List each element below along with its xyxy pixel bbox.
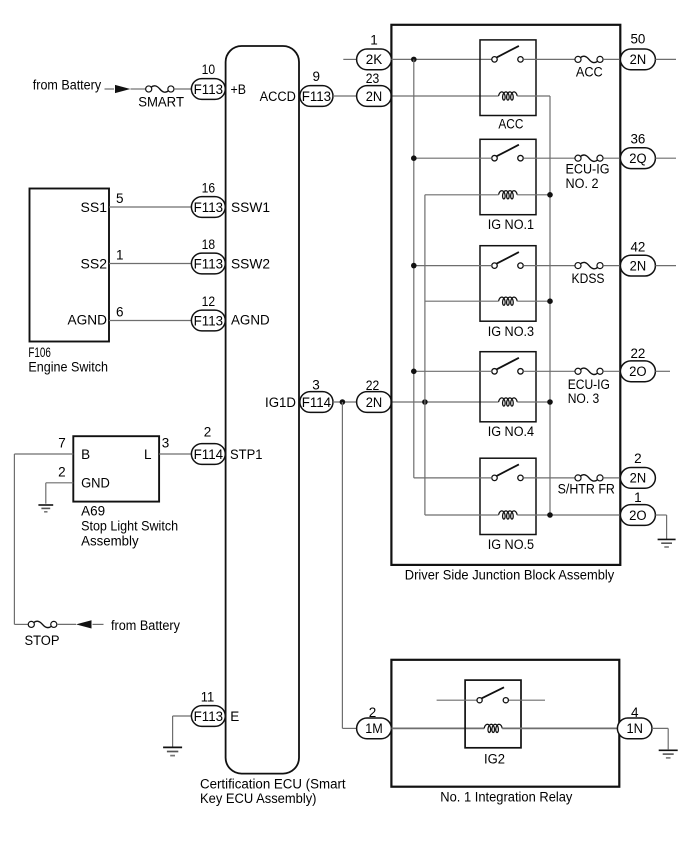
junction node switch-bus top [411,57,417,63]
wire fuse KDSS to connector 2N pin 42 [603,265,620,267]
junction node return bus at IG NO.4 coil [547,399,553,405]
svg-text:AGND: AGND [231,313,270,328]
wire relay IG NO.3 coil to return bus [517,300,550,302]
svg-text:KDSS: KDSS [572,271,605,286]
wire coil bus to relay IG NO.3 coil [425,300,499,302]
svg-text:STOP: STOP [25,633,60,648]
wire switch bus (vertical) [413,59,415,478]
junction node IG1D branch [340,399,346,405]
svg-text:IG1D: IG1D [265,395,296,410]
wire IG1D branch down to connector 1M pin 2 [341,402,343,728]
svg-text:2Q: 2Q [629,151,646,166]
ECU U1 Certification ECU (Smart Key ECU Assembly) body [226,46,299,774]
wire coil bus to relay IG NO.5 coil [425,514,499,516]
svg-text:F106: F106 [28,345,51,360]
wire relay IG NO.4 coil to return bus [517,401,550,403]
svg-text:2N: 2N [630,258,647,273]
wire stub after 2N pin 42 [655,265,676,267]
svg-text:F114: F114 [302,395,332,410]
svg-text:2: 2 [204,425,212,440]
svg-text:2N: 2N [366,89,383,104]
svg-text:B: B [81,447,90,462]
svg-text:F114: F114 [194,447,224,462]
svg-text:2K: 2K [366,52,383,67]
wire switch bus to relay IG NO.1 switch [414,157,492,159]
wire coil bus (vertical) IG NO.1 to IG NO.5 [424,195,426,515]
wire F114 pin 3 to connector 2N pin 22 [333,401,357,403]
svg-text:22: 22 [366,378,380,393]
fuse ECU-IG NO. 2 [575,155,581,161]
svg-text:50: 50 [630,31,645,46]
wire arrow to fuse SMART [131,88,146,90]
wire stub after 2N pin 50 [655,58,676,60]
junction node bus at IG NO.1 [411,155,417,161]
junction node return bus at IG NO.3 coil [547,298,553,304]
wire coil bus to relay IG NO.1 coil [425,194,499,196]
svg-text:2N: 2N [366,395,383,410]
wire stub after 2O pin 22 [655,370,670,372]
wire relay IG NO.1 switch to fuse ECU-IG NO. 2 [523,157,575,159]
wire 1N pin 4 to ground [652,727,668,729]
svg-text:2: 2 [634,451,642,466]
svg-text:S/HTR FR: S/HTR FR [558,482,616,497]
relay IG NO.5 [480,458,536,534]
svg-text:IG NO.5: IG NO.5 [488,537,534,552]
svg-text:ACC: ACC [576,64,603,79]
fuse ACC [575,56,581,62]
svg-text:SSW2: SSW2 [231,256,270,271]
svg-text:A69: A69 [81,504,105,519]
wire 2N pin 23 to relay ACC coil [391,95,498,97]
svg-text:Stop Light Switch: Stop Light Switch [81,519,178,534]
svg-text:1: 1 [116,248,124,263]
wire relay ACC coil to return bus [517,95,550,97]
svg-text:2: 2 [58,465,66,480]
fuse S/HTR FR [575,475,581,481]
wire stub after 2Q pin 36 [655,157,676,159]
wire fuse ACC to connector 2N pin 50 [603,58,620,60]
fuse KDSS [575,263,581,269]
svg-text:ECU-IG: ECU-IG [568,377,610,392]
svg-text:No. 1 Integration Relay: No. 1 Integration Relay [440,789,572,804]
svg-text:22: 22 [630,346,645,361]
svg-text:7: 7 [58,436,66,451]
svg-text:Certification ECU (Smart: Certification ECU (Smart [200,777,346,792]
fuse SMART [146,86,152,92]
svg-text:F113: F113 [194,256,223,271]
wire relay ACC switch to fuse ACC [523,58,575,60]
junction node return bus at IG NO.1 coil [547,192,553,198]
wire relay IG NO.5 coil to connector 2O pin 1 [517,514,620,516]
svg-text:42: 42 [630,240,645,255]
stop light switch A69 box [73,436,159,501]
wire fuse ECU-IG NO. 2 to connector 2Q pin 36 [603,157,620,159]
junction node bus at IG NO.4 [411,369,417,375]
integration relay block box (No. 1 Integration Relay) [391,660,619,787]
svg-text:1N: 1N [626,721,643,736]
svg-text:1: 1 [634,490,642,505]
wire stub left of connector 2K pin 1 [343,58,356,60]
svg-text:Driver Side Junction Block Ass: Driver Side Junction Block Assembly [405,568,615,583]
svg-text:9: 9 [312,69,320,84]
wire relay IG NO.4 switch to fuse ECU-IG NO. 3 [523,370,575,372]
svg-text:ACC: ACC [498,116,523,131]
wire switch bus to relay IG NO.5 switch [414,477,492,479]
net from Battery (bottom) arrow and label [76,620,92,628]
engine switch F106 box [30,189,110,342]
wire relay IG2 coil to connector 1N pin 4 [502,727,617,729]
svg-text:3: 3 [162,436,170,451]
svg-text:5: 5 [116,191,124,206]
svg-text:F113: F113 [194,82,223,97]
svg-text:12: 12 [202,294,216,309]
svg-text:1M: 1M [365,721,383,736]
svg-text:3: 3 [312,378,320,393]
svg-text:NO. 3: NO. 3 [568,391,600,406]
svg-text:F113: F113 [302,89,331,104]
svg-text:SS2: SS2 [81,256,108,271]
svg-text:E: E [230,709,239,724]
relay IG NO.4 [480,352,536,422]
svg-text:IG2: IG2 [484,751,505,766]
wire fuse S/HTR FR to connector 2N pin 2 [603,477,620,479]
svg-text:SS1: SS1 [81,200,108,215]
junction node coil-bus tap at IG NO.4 coil [422,399,428,405]
wire fuse ECU-IG NO. 3 to connector 2O pin 22 [603,370,620,372]
fuse ECU-IG NO. 3 [575,368,581,374]
svg-text:SSW1: SSW1 [231,200,270,215]
ground (integration relay) [659,749,678,751]
relay ACC [480,40,536,116]
fuse STOP [28,621,34,627]
svg-text:ACCD: ACCD [260,89,297,104]
junction node return bus at IG NO.5 coil [547,512,553,518]
junction block assembly box (Driver Side Junction Block Assembly) [391,25,620,565]
ground (junction block coil return) [658,538,676,540]
svg-text:AGND: AGND [68,313,108,328]
svg-text:Engine Switch: Engine Switch [28,359,108,374]
svg-text:F113: F113 [194,709,223,724]
svg-text:from Battery: from Battery [111,618,180,633]
wire 2O pin 1 to ground [655,514,666,516]
wire relay IG NO.5 switch to fuse S/HTR FR [523,477,575,479]
svg-text:23: 23 [366,71,380,86]
wire fuse STOP to from-Battery arrow [57,623,76,625]
svg-text:from Battery: from Battery [33,78,102,93]
svg-text:SMART: SMART [138,95,184,110]
svg-text:NO. 2: NO. 2 [566,176,599,191]
svg-text:STP1: STP1 [230,447,263,462]
svg-text:L: L [144,447,152,462]
ground (stop light switch) [38,504,53,506]
svg-text:GND: GND [81,475,110,490]
wire switch bus to relay IG NO.3 switch [414,265,492,267]
svg-text:36: 36 [630,132,645,147]
svg-text:ECU-IG: ECU-IG [566,162,610,177]
wire ground to F113 pin 11 (E) [173,715,192,717]
svg-text:+B: +B [231,82,247,97]
wire relay IG NO.1 coil to return bus [517,194,550,196]
svg-text:IG NO.4: IG NO.4 [488,424,535,439]
relay IG NO.1 [480,139,536,214]
relay IG2 [465,680,521,748]
svg-text:Assembly: Assembly [81,534,139,549]
svg-text:18: 18 [202,237,216,252]
wire F113 pin 9 to connector 2N pin 23 [333,95,357,97]
svg-text:6: 6 [116,305,124,320]
wire fuse SMART to connector F113 pin 10 [174,88,191,90]
svg-text:2O: 2O [629,364,647,379]
svg-text:Key ECU Assembly): Key ECU Assembly) [200,791,317,806]
relay IG NO.3 [480,246,536,322]
svg-text:F113: F113 [194,313,223,328]
svg-text:2N: 2N [630,471,647,486]
wire coil return bus (vertical) [549,96,551,515]
ground (ECU E pin) [163,746,182,748]
svg-text:16: 16 [202,181,216,196]
wire switch bus to relay IG NO.4 switch [414,370,492,372]
svg-text:IG NO.1: IG NO.1 [488,217,534,232]
wire 2K pin 1 to relay ACC switch [391,58,491,60]
wire relay IG NO.3 switch to fuse KDSS [523,265,575,267]
svg-text:11: 11 [201,689,215,704]
svg-text:F113: F113 [194,200,223,215]
wire 1M pin 2 to relay IG2 coil [391,727,484,729]
svg-text:1: 1 [370,33,378,48]
wire 2N pin 22 to relay IG NO.4 coil [391,401,498,403]
junction node bus at IG NO.3 [411,263,417,269]
svg-text:IG NO.3: IG NO.3 [488,324,534,339]
svg-text:2O: 2O [629,508,647,523]
svg-text:10: 10 [202,62,216,77]
svg-text:2N: 2N [630,52,647,67]
